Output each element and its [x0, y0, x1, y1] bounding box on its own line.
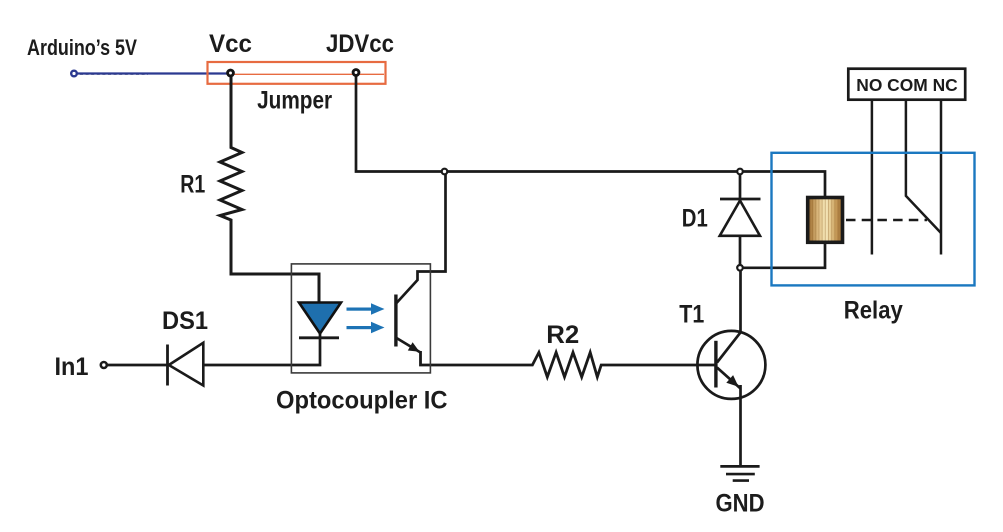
svg-text:NO COM NC: NO COM NC: [856, 75, 958, 95]
svg-text:R1: R1: [180, 170, 205, 198]
svg-text:In1: In1: [55, 353, 89, 381]
svg-text:Relay: Relay: [844, 296, 903, 324]
svg-text:Vcc: Vcc: [209, 30, 252, 58]
svg-text:DS1: DS1: [162, 307, 208, 335]
svg-text:Arduino’s 5V: Arduino’s 5V: [27, 35, 137, 60]
svg-text:Optocoupler IC: Optocoupler IC: [276, 387, 448, 415]
svg-text:JDVcc: JDVcc: [326, 30, 394, 58]
svg-text:R2: R2: [546, 321, 579, 349]
svg-text:T1: T1: [679, 301, 704, 329]
svg-text:Jumper: Jumper: [257, 86, 332, 114]
svg-text:D1: D1: [682, 205, 708, 233]
svg-text:GND: GND: [716, 490, 765, 518]
